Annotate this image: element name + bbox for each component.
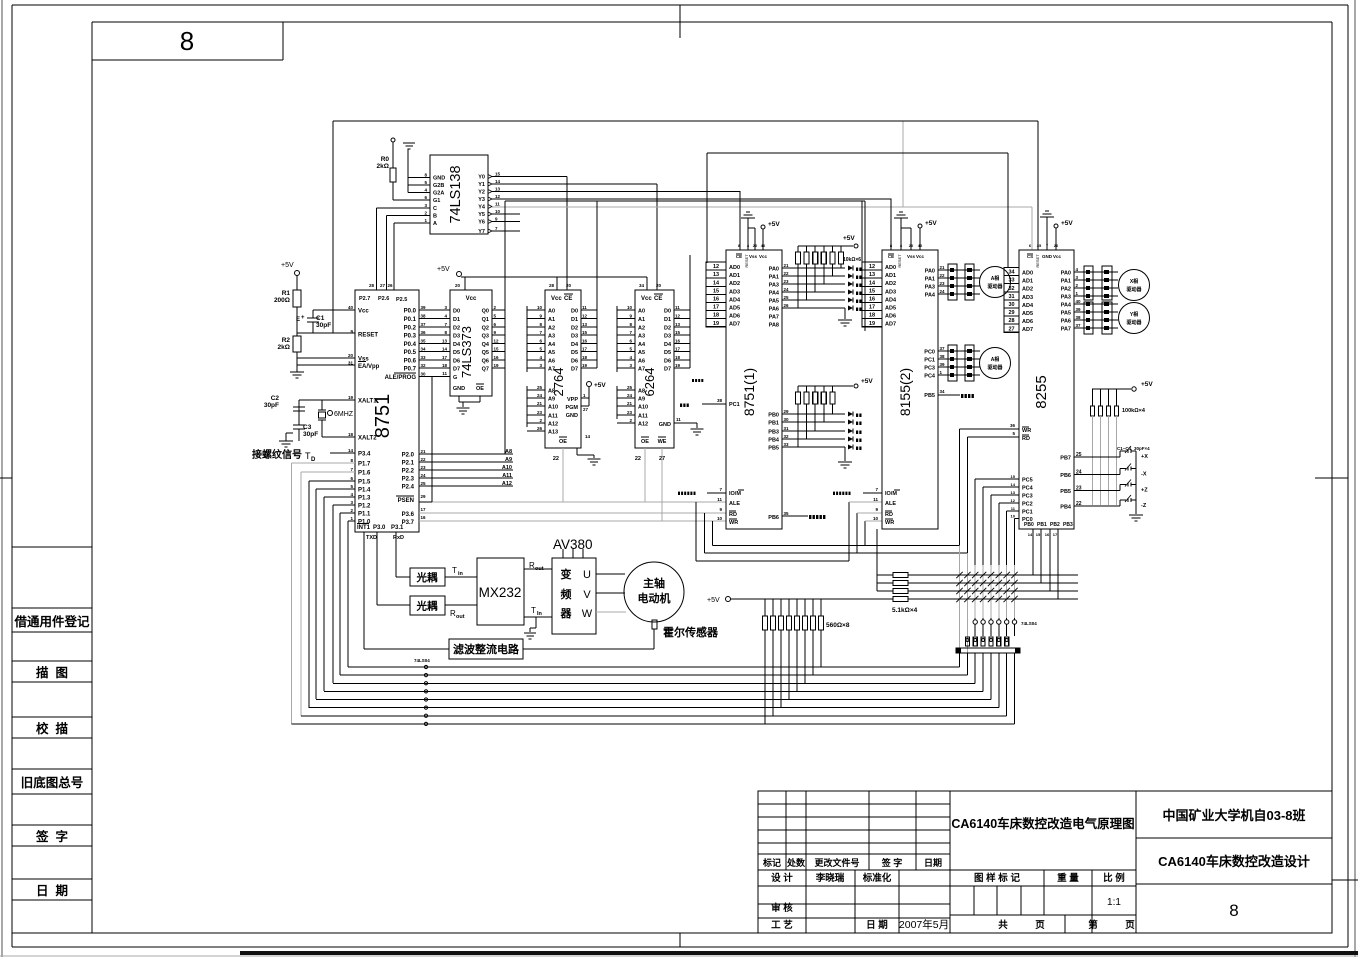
- svg-text:A9: A9: [505, 457, 512, 463]
- IC U1 74LS138 body: [430, 155, 488, 234]
- 8751(1) top stub Vcc +5V: [762, 229, 764, 250]
- svg-text:200Ω: 200Ω: [274, 297, 290, 304]
- svg-text:+5V: +5V: [925, 220, 937, 227]
- svg-text:Vss: Vss: [907, 254, 916, 259]
- svg-text:D3: D3: [571, 334, 578, 340]
- svg-text:24: 24: [421, 473, 427, 478]
- svg-text:Y7: Y7: [478, 229, 485, 235]
- wire Y6 stub: [492, 221, 520, 223]
- svg-text:MX232: MX232: [479, 585, 522, 600]
- svg-text:EA/Vpp: EA/Vpp: [358, 364, 380, 370]
- svg-text:10: 10: [627, 305, 633, 310]
- border frame outer top: [12, 4, 1348, 6]
- svg-text:16: 16: [582, 339, 588, 344]
- svg-text:CA6140车床数控改造设计: CA6140车床数控改造设计: [1158, 854, 1310, 869]
- IC 8751(1) body: [726, 250, 782, 529]
- svg-text:37: 37: [421, 322, 427, 327]
- svg-text:22: 22: [553, 456, 559, 462]
- svg-text:+: +: [301, 315, 305, 321]
- resistor R1 200: [296, 275, 298, 290]
- svg-text:8: 8: [1229, 901, 1238, 920]
- svg-text:P1.1: P1.1: [358, 512, 371, 518]
- svg-text:11: 11: [676, 417, 681, 422]
- svg-text:Q2: Q2: [482, 326, 489, 332]
- svg-text:借通用件登记: 借通用件登记: [13, 614, 90, 629]
- svg-text:13: 13: [442, 339, 448, 344]
- ground crystal: [279, 440, 293, 442]
- svg-text:AD2: AD2: [729, 281, 740, 287]
- svg-text:+X: +X: [1141, 454, 1148, 460]
- 560 ohm pullup resistors: [764, 599, 766, 616]
- svg-text:D5: D5: [571, 350, 578, 356]
- svg-text:15: 15: [1036, 532, 1041, 537]
- svg-text:RESET: RESET: [1035, 254, 1040, 268]
- svg-text:22: 22: [784, 271, 790, 276]
- svg-text:36: 36: [1010, 423, 1016, 428]
- border frame inner top y22: [92, 21, 1332, 23]
- border frame inner right x1332: [1331, 22, 1333, 933]
- svg-text:PA0: PA0: [925, 269, 935, 275]
- svg-text:24: 24: [784, 287, 790, 292]
- svg-text:PA3: PA3: [925, 285, 935, 291]
- svg-text:16: 16: [869, 297, 875, 303]
- svg-text:30: 30: [784, 417, 790, 422]
- 74LS138 left pin wires GND G2B G2A: [408, 177, 430, 179]
- svg-text:33: 33: [1008, 278, 1014, 284]
- bottom centering tick x680: [679, 933, 681, 947]
- right frame tick y478: [1315, 477, 1348, 479]
- svg-text:A2: A2: [548, 326, 555, 332]
- svg-text:器: 器: [560, 607, 573, 620]
- svg-text:11: 11: [873, 497, 878, 502]
- svg-text:12: 12: [495, 194, 501, 199]
- svg-text:74LS04: 74LS04: [1021, 621, 1037, 626]
- svg-text:25: 25: [537, 385, 543, 390]
- svg-text:PC4: PC4: [924, 374, 936, 380]
- svg-text:ALE/PROG: ALE/PROG: [385, 375, 417, 381]
- svg-text:30pF: 30pF: [316, 322, 331, 329]
- svg-text:Y2: Y2: [478, 190, 485, 196]
- svg-text:Vcc: Vcc: [641, 296, 652, 302]
- svg-text:AD1: AD1: [729, 273, 740, 279]
- svg-text:D6: D6: [571, 359, 578, 365]
- svg-text:74LS138: 74LS138: [448, 165, 464, 223]
- svg-text:D2: D2: [664, 326, 671, 332]
- svg-text:17: 17: [1053, 532, 1058, 537]
- svg-text:6MHZ: 6MHZ: [334, 411, 354, 418]
- svg-text:P1.2: P1.2: [358, 504, 371, 510]
- svg-text:PC1: PC1: [729, 402, 740, 408]
- spindle motor circle: [624, 562, 684, 622]
- IC 6264 body: [635, 290, 674, 448]
- svg-text:74LS04: 74LS04: [414, 658, 430, 663]
- svg-text:20: 20: [566, 283, 572, 288]
- svg-text:12: 12: [582, 314, 588, 319]
- border frame outer right: [1347, 5, 1349, 947]
- svg-text:PB3: PB3: [768, 430, 779, 436]
- svg-text:36: 36: [421, 330, 427, 335]
- svg-text:22: 22: [940, 273, 946, 278]
- svg-text:A10: A10: [502, 465, 512, 471]
- hatch crossing marks: [956, 572, 962, 578]
- svg-text:P1.6: P1.6: [358, 471, 371, 477]
- svg-text:28: 28: [549, 283, 555, 288]
- svg-text:39: 39: [421, 305, 427, 310]
- wire TXD to opto2: [377, 604, 410, 606]
- svg-text:PB4: PB4: [768, 438, 780, 444]
- svg-text:18: 18: [869, 313, 875, 319]
- svg-text:P2.5: P2.5: [396, 297, 407, 303]
- +5V rail y599: [730, 598, 893, 600]
- svg-text:11: 11: [675, 305, 680, 310]
- svg-text:19: 19: [494, 363, 500, 368]
- svg-text:Y0: Y0: [478, 175, 485, 181]
- svg-text:AD0: AD0: [729, 265, 740, 271]
- 10k pullup network PB of 8751(1): [798, 385, 853, 387]
- svg-text:37: 37: [1076, 323, 1082, 328]
- svg-text:D1: D1: [571, 317, 578, 323]
- svg-text:39: 39: [940, 362, 946, 367]
- svg-text:A3: A3: [548, 334, 555, 340]
- svg-text:1:1: 1:1: [1107, 897, 1121, 908]
- svg-text:第: 第: [1088, 919, 1098, 931]
- svg-text:A11: A11: [638, 414, 648, 420]
- svg-text:P0.4: P0.4: [404, 342, 417, 348]
- svg-text:29: 29: [1008, 310, 1014, 316]
- 100k pullup network 8255: [1092, 388, 1131, 390]
- svg-text:14: 14: [869, 280, 876, 286]
- svg-text:16: 16: [494, 355, 500, 360]
- svg-text:12: 12: [494, 339, 500, 344]
- svg-text:AD3: AD3: [885, 289, 896, 295]
- 100k gray drop wires: [1092, 416, 1094, 505]
- svg-text:15: 15: [495, 172, 501, 177]
- svg-text:U: U: [583, 569, 591, 581]
- svg-text:签 字: 签 字: [35, 829, 68, 844]
- svg-text:30pF: 30pF: [264, 402, 279, 409]
- svg-text:Y4: Y4: [478, 205, 486, 211]
- svg-text:10: 10: [495, 209, 501, 214]
- wire RESET node: [297, 332, 355, 334]
- svg-text:+5V: +5V: [843, 235, 855, 242]
- svg-text:E: E: [296, 317, 300, 323]
- svg-text:A0: A0: [638, 309, 645, 315]
- svg-text:校 描: 校 描: [36, 721, 68, 736]
- svg-text:+5V: +5V: [281, 262, 294, 269]
- svg-text:CE: CE: [564, 296, 572, 302]
- svg-text:P3.7: P3.7: [402, 520, 415, 526]
- svg-text:11: 11: [717, 497, 722, 502]
- svg-text:2007年5月: 2007年5月: [899, 918, 949, 931]
- svg-text:A相: A相: [991, 356, 1000, 363]
- svg-text:14: 14: [442, 347, 448, 352]
- svg-text:RxD: RxD: [393, 535, 404, 541]
- svg-text:Q1: Q1: [482, 317, 489, 323]
- svg-text:30pF: 30pF: [303, 431, 318, 438]
- svg-text:A1: A1: [638, 317, 645, 323]
- svg-text:滤波整流电路: 滤波整流电路: [453, 642, 520, 656]
- border frame outer left: [11, 5, 13, 947]
- stepper driver circle YA: [1119, 303, 1150, 334]
- svg-text:14: 14: [348, 448, 354, 453]
- svg-text:D3: D3: [453, 334, 460, 340]
- svg-text:P0.0: P0.0: [404, 309, 417, 315]
- filter box 滤波整流电路: [449, 639, 523, 659]
- border frame inner left x92: [91, 22, 93, 933]
- svg-text:38: 38: [940, 354, 946, 359]
- svg-text:A9: A9: [638, 397, 645, 403]
- wire Y2 to 8751(1) CE: [492, 191, 740, 193]
- svg-text:D4: D4: [453, 342, 461, 348]
- svg-text:AD6: AD6: [1022, 319, 1033, 325]
- svg-text:13: 13: [675, 322, 681, 327]
- svg-text:A5: A5: [548, 350, 555, 356]
- hall sensor element: [652, 620, 657, 629]
- svg-text:560Ω×8: 560Ω×8: [826, 622, 850, 629]
- control bus nest RD net: [704, 513, 706, 553]
- svg-text:35: 35: [1037, 243, 1042, 248]
- svg-text:AD7: AD7: [729, 322, 740, 328]
- top centering tick x680: [679, 5, 681, 38]
- svg-text:2kΩ: 2kΩ: [278, 344, 290, 351]
- inverter box 变频器: [552, 558, 596, 634]
- svg-text:29: 29: [784, 409, 790, 414]
- wire V to motor: [596, 592, 625, 594]
- left frame tick y478: [0, 477, 12, 479]
- inverter bank glyphs: [965, 637, 969, 646]
- svg-text:P1.5: P1.5: [358, 480, 371, 486]
- 2764 OE gray stub: [562, 448, 564, 502]
- svg-text:11: 11: [495, 202, 500, 207]
- svg-text:A4: A4: [638, 342, 646, 348]
- svg-text:签 字: 签 字: [881, 857, 903, 868]
- svg-text:Y1: Y1: [478, 182, 485, 188]
- svg-text:25: 25: [784, 295, 790, 300]
- 5.1k resistor rows: [877, 574, 893, 576]
- 8751(1) PA row wires and diodes: [782, 267, 845, 269]
- svg-text:PB0: PB0: [768, 413, 779, 419]
- svg-text:AD4: AD4: [885, 297, 897, 303]
- svg-text:PB5: PB5: [768, 446, 779, 452]
- svg-text:日期: 日期: [924, 857, 942, 868]
- gray stubs into 8155 control pins: [849, 501, 882, 503]
- svg-text:17: 17: [442, 355, 448, 360]
- svg-text:8: 8: [180, 26, 194, 56]
- resistor R2 2k: [293, 336, 301, 352]
- ground reset: [290, 371, 304, 373]
- svg-text:A11: A11: [548, 414, 558, 420]
- 2764 left pins A0-A7: [526, 306, 528, 372]
- IC 8255 body: [1019, 250, 1074, 529]
- svg-text:PC5: PC5: [1022, 478, 1033, 484]
- svg-text:14: 14: [1011, 482, 1016, 487]
- svg-text:13: 13: [713, 272, 719, 278]
- label 接螺纹信号TD: [330, 452, 355, 454]
- svg-text:PB1: PB1: [768, 421, 779, 427]
- svg-text:25: 25: [627, 385, 633, 390]
- svg-text:31: 31: [784, 426, 790, 431]
- svg-text:PA8: PA8: [769, 323, 779, 329]
- svg-text:AD2: AD2: [1022, 287, 1033, 293]
- title block outline: [758, 791, 1332, 933]
- svg-text:17: 17: [675, 347, 681, 352]
- svg-text:D5: D5: [664, 350, 671, 356]
- svg-text:PB0: PB0: [1024, 522, 1034, 528]
- svg-text:Q4: Q4: [482, 342, 490, 348]
- svg-text:15: 15: [494, 347, 500, 352]
- svg-text:PC1: PC1: [1022, 510, 1033, 516]
- svg-text:设 计: 设 计: [771, 872, 793, 884]
- thick bottom bar: [240, 951, 1358, 955]
- svg-text:A0: A0: [548, 309, 555, 315]
- svg-text:A12: A12: [502, 481, 512, 487]
- resistor R0 2k: [392, 142, 394, 168]
- svg-text:30: 30: [421, 372, 427, 377]
- svg-text:19: 19: [869, 321, 875, 327]
- 8751 bottom stub INT to filter: [363, 532, 365, 649]
- svg-text:图 样 标 记: 图 样 标 记: [974, 872, 1020, 884]
- svg-text:27: 27: [380, 283, 386, 288]
- svg-text:26: 26: [784, 303, 790, 308]
- 10k pullup network of 8751(1): [798, 245, 853, 247]
- svg-text:PB6: PB6: [768, 515, 779, 521]
- svg-text:Vcc: Vcc: [916, 254, 925, 259]
- svg-text:C2: C2: [271, 395, 280, 402]
- svg-text:38: 38: [717, 398, 723, 403]
- svg-text:PB1: PB1: [1037, 522, 1047, 528]
- svg-text:15: 15: [675, 330, 681, 335]
- svg-text:共: 共: [998, 919, 1008, 931]
- svg-text:GND: GND: [453, 386, 465, 392]
- inverter top stubs: [562, 549, 564, 558]
- svg-text:12: 12: [675, 314, 681, 319]
- svg-text:31: 31: [1008, 294, 1014, 300]
- wire filter right to hall: [523, 648, 654, 650]
- svg-text:Y3: Y3: [478, 197, 485, 203]
- svg-text:Q5: Q5: [482, 350, 489, 356]
- svg-text:驱动器: 驱动器: [987, 283, 1003, 290]
- svg-text:C1: C1: [316, 315, 325, 322]
- svg-text:PB5: PB5: [924, 393, 935, 399]
- wire Y0 to 2764 CE: [492, 176, 567, 178]
- ground of PA network: [844, 308, 846, 319]
- svg-text:PA7: PA7: [1061, 327, 1071, 333]
- svg-text:23: 23: [940, 281, 946, 286]
- wire Y5 stub: [492, 213, 520, 215]
- svg-text:-X: -X: [1141, 472, 1147, 478]
- inverter bank fan wires: [959, 653, 961, 667]
- svg-text:CE: CE: [736, 254, 742, 259]
- svg-text:27: 27: [583, 407, 589, 412]
- svg-text:A: A: [433, 221, 437, 227]
- svg-text:A5: A5: [638, 350, 645, 356]
- svg-text:24: 24: [940, 289, 946, 294]
- sheet edge gray line left: [1, 0, 3, 957]
- svg-text:14: 14: [495, 179, 501, 184]
- svg-text:10: 10: [1011, 514, 1016, 519]
- svg-text:PGM: PGM: [565, 405, 578, 411]
- right frame tick y880: [1332, 879, 1358, 881]
- svg-text:主轴: 主轴: [643, 576, 665, 590]
- wire MX232 to inverter top: [524, 568, 552, 570]
- data bus wire y201: [505, 200, 865, 202]
- 6264 left pins A0-A7: [616, 306, 618, 372]
- svg-text:ALE: ALE: [885, 501, 896, 507]
- svg-text:20: 20: [455, 283, 461, 288]
- svg-text:标记: 标记: [762, 857, 781, 868]
- wire Y3 to 8155(2) CE: [492, 198, 891, 200]
- svg-text:GND: GND: [1042, 254, 1053, 259]
- wire filter left to 8751: [364, 648, 449, 650]
- svg-text:22: 22: [635, 456, 641, 462]
- svg-text:P2.2: P2.2: [402, 469, 415, 475]
- svg-text:RESET: RESET: [358, 333, 378, 339]
- svg-text:35: 35: [784, 511, 790, 516]
- svg-text:A6: A6: [638, 359, 645, 365]
- 74LS138 pin wire B to 8751 P2.6: [387, 215, 430, 217]
- svg-text:PB6: PB6: [1060, 473, 1071, 479]
- wire W to motor: [596, 611, 626, 613]
- svg-text:+5V: +5V: [594, 382, 606, 389]
- svg-text:P2.4: P2.4: [402, 485, 415, 491]
- svg-text:V: V: [583, 589, 591, 601]
- svg-text:+5V: +5V: [1061, 220, 1073, 227]
- svg-text:A相: A相: [991, 275, 1000, 282]
- svg-text:14: 14: [585, 434, 591, 439]
- svg-text:A8: A8: [505, 449, 512, 455]
- svg-text:P0.1: P0.1: [404, 317, 417, 323]
- svg-text:驱动器: 驱动器: [1126, 319, 1142, 326]
- svg-text:12: 12: [713, 264, 719, 270]
- svg-text:12: 12: [869, 264, 875, 270]
- svg-text:IO/M: IO/M: [885, 491, 897, 497]
- svg-text:PB3: PB3: [1063, 522, 1073, 528]
- svg-text:WR: WR: [885, 520, 894, 526]
- svg-text:D2: D2: [453, 326, 460, 332]
- svg-text:13: 13: [869, 272, 875, 278]
- svg-text:C: C: [433, 206, 437, 212]
- svg-text:20: 20: [348, 353, 354, 358]
- svg-text:PC4: PC4: [1022, 486, 1034, 492]
- svg-text:+5V: +5V: [437, 266, 450, 273]
- svg-text:15: 15: [582, 330, 588, 335]
- border frame inner bottom y933: [12, 932, 1332, 934]
- svg-text:李晓瑞: 李晓瑞: [815, 872, 845, 884]
- svg-text:21: 21: [784, 263, 790, 268]
- svg-text:日 期: 日 期: [36, 883, 68, 898]
- svg-text:P0.7: P0.7: [404, 367, 417, 373]
- svg-text:PB7: PB7: [1060, 456, 1071, 462]
- svg-text:17: 17: [582, 347, 588, 352]
- svg-text:P3.4: P3.4: [358, 452, 371, 458]
- svg-text:D: D: [311, 457, 316, 463]
- svg-text:PA6: PA6: [769, 307, 779, 313]
- svg-text:P0.2: P0.2: [404, 326, 417, 332]
- svg-text:16: 16: [1045, 532, 1050, 537]
- svg-text:PC3: PC3: [1022, 494, 1033, 500]
- svg-text:PA4: PA4: [1061, 303, 1072, 309]
- svg-text:D7: D7: [571, 367, 578, 373]
- svg-text:20: 20: [753, 243, 758, 248]
- svg-text:T: T: [452, 566, 457, 575]
- svg-text:D7: D7: [453, 367, 460, 373]
- svg-text:P2.7: P2.7: [359, 296, 370, 302]
- svg-text:页: 页: [1035, 920, 1045, 931]
- svg-text:14: 14: [1028, 532, 1033, 537]
- 74LS138 pin wire A to 8751 P2.5: [394, 222, 430, 224]
- 8255 PB0-PB3 bottom stubs: [1032, 529, 1034, 575]
- svg-text:22: 22: [421, 457, 427, 462]
